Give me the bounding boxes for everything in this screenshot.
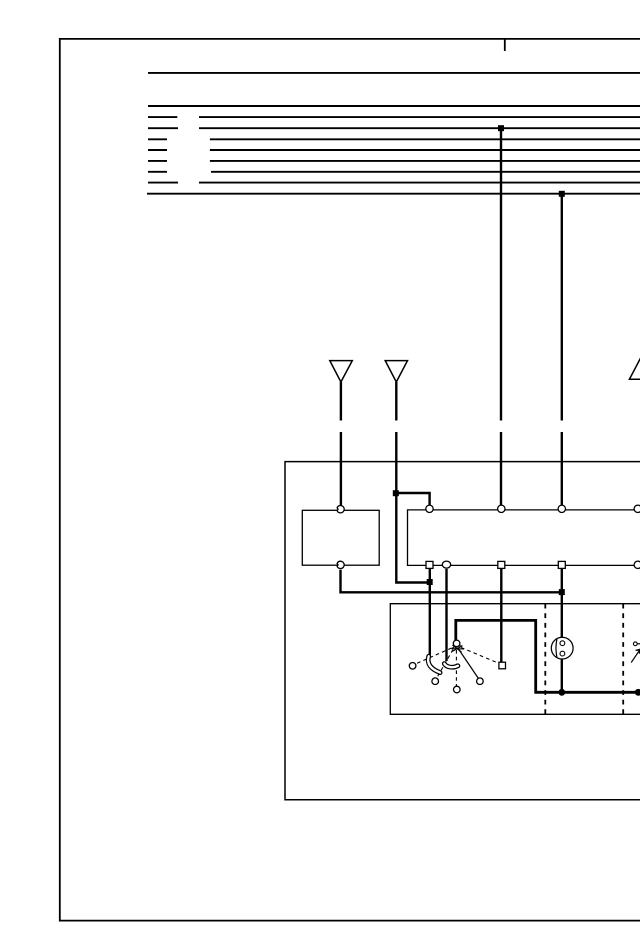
connector triangle A: [330, 361, 353, 382]
switch rotation arrows: [452, 645, 465, 652]
harness bundle line 6 right: [210, 160, 640, 162]
harness bundle line 3 right: [199, 127, 640, 129]
harness bundle line 4 left: [148, 138, 167, 140]
wire W2 branch to pin: [396, 493, 429, 507]
relay block outer box: [285, 462, 640, 800]
switch dashed link to R: [461, 648, 498, 664]
connector triangle B: [385, 361, 407, 382]
junction W4 tap: [559, 191, 565, 197]
switch contact P2: [454, 686, 461, 693]
harness bundle line 7 left: [148, 171, 167, 173]
wire W2 lower: [396, 432, 430, 583]
pin K1 top: [337, 505, 344, 512]
harness bundle line 4 right: [210, 138, 640, 140]
wire W1 upper: [340, 382, 342, 421]
switch pivot contact: [453, 640, 460, 647]
wire W4 lower: [561, 432, 563, 507]
pin K2 bottom 4: [558, 561, 565, 568]
harness bundle line 6 left: [148, 160, 167, 162]
harness bundle line 9: [147, 193, 640, 195]
pin K2 bottom 2: [442, 561, 450, 568]
pin K2 top 3: [558, 505, 565, 512]
wire K1 bottom to bus: [341, 570, 562, 593]
pin K2 bottom 5: [634, 561, 640, 568]
harness bundle line 7 right: [211, 171, 640, 173]
switch assembly box: [390, 604, 640, 715]
bulb B1 glass chord: [555, 639, 558, 657]
junction W2 branch: [393, 490, 399, 496]
switch contact P1: [432, 678, 439, 685]
switch dashed link to P2: [455, 650, 457, 686]
connector triangle C (partial, page edge): [629, 358, 640, 379]
switch contact L: [409, 663, 416, 670]
switch lever: [458, 648, 479, 680]
component box K2: [408, 510, 640, 566]
bulb B1 terminal bottom: [560, 651, 565, 656]
wire W3 upper: [500, 128, 502, 420]
wire W2 upper: [395, 382, 397, 421]
bulb B1 outer: [551, 637, 573, 659]
harness bundle line 5 right: [210, 149, 640, 151]
harness bundle line 2 left: [148, 116, 177, 118]
pin K2 top 2: [498, 505, 505, 512]
border tick mark: [504, 39, 506, 51]
bulb B1 terminal top: [560, 641, 565, 646]
pin K2 top 1: [426, 505, 433, 512]
junction bus end: [559, 589, 565, 595]
wire W4 upper: [561, 194, 563, 421]
thick feed path from switch common: [456, 620, 640, 692]
pin K1 bottom: [337, 561, 344, 568]
harness bundle line 1: [148, 105, 640, 107]
junction W3 tap: [498, 125, 504, 131]
top rule wire: [148, 72, 640, 74]
wire pin2 down to switch arc: [445, 569, 447, 661]
rheostat partial at page edge: [635, 643, 640, 645]
wire pin1 down to switch arc: [429, 569, 431, 656]
harness bundle line 5 left: [148, 149, 167, 151]
switch contact P3: [477, 678, 484, 685]
wire bulb to bottom bus: [561, 654, 563, 692]
switch contact square R: [499, 662, 506, 669]
section dashed divider 1: [544, 604, 546, 715]
junction bulb bus: [558, 689, 565, 696]
switch arc contact 1 (banana): [428, 656, 440, 672]
harness bundle line 8 left: [148, 182, 178, 184]
wire W3 lower: [500, 432, 502, 507]
harness bundle line 8 right: [199, 182, 640, 184]
switch dashed link to L: [417, 648, 452, 664]
junction at right edge: [635, 689, 640, 696]
pin K2 bottom 1: [426, 561, 433, 568]
wire W1 lower: [340, 432, 342, 507]
section dashed divider 2: [622, 604, 624, 715]
harness bundle line 3 left: [148, 127, 178, 129]
pin K2 bottom 3: [498, 561, 505, 568]
wire pin4 down to bulb: [561, 569, 563, 643]
harness bundle line 2 right: [199, 116, 640, 118]
switch dashed link to P1: [437, 650, 453, 678]
component box K1: [302, 510, 379, 565]
junction W2 meets pin1 wire: [427, 579, 433, 585]
wire pin3 down to contact: [500, 569, 502, 663]
pin K2 top 4: [634, 505, 640, 512]
switch arc contact 2: [444, 664, 458, 668]
